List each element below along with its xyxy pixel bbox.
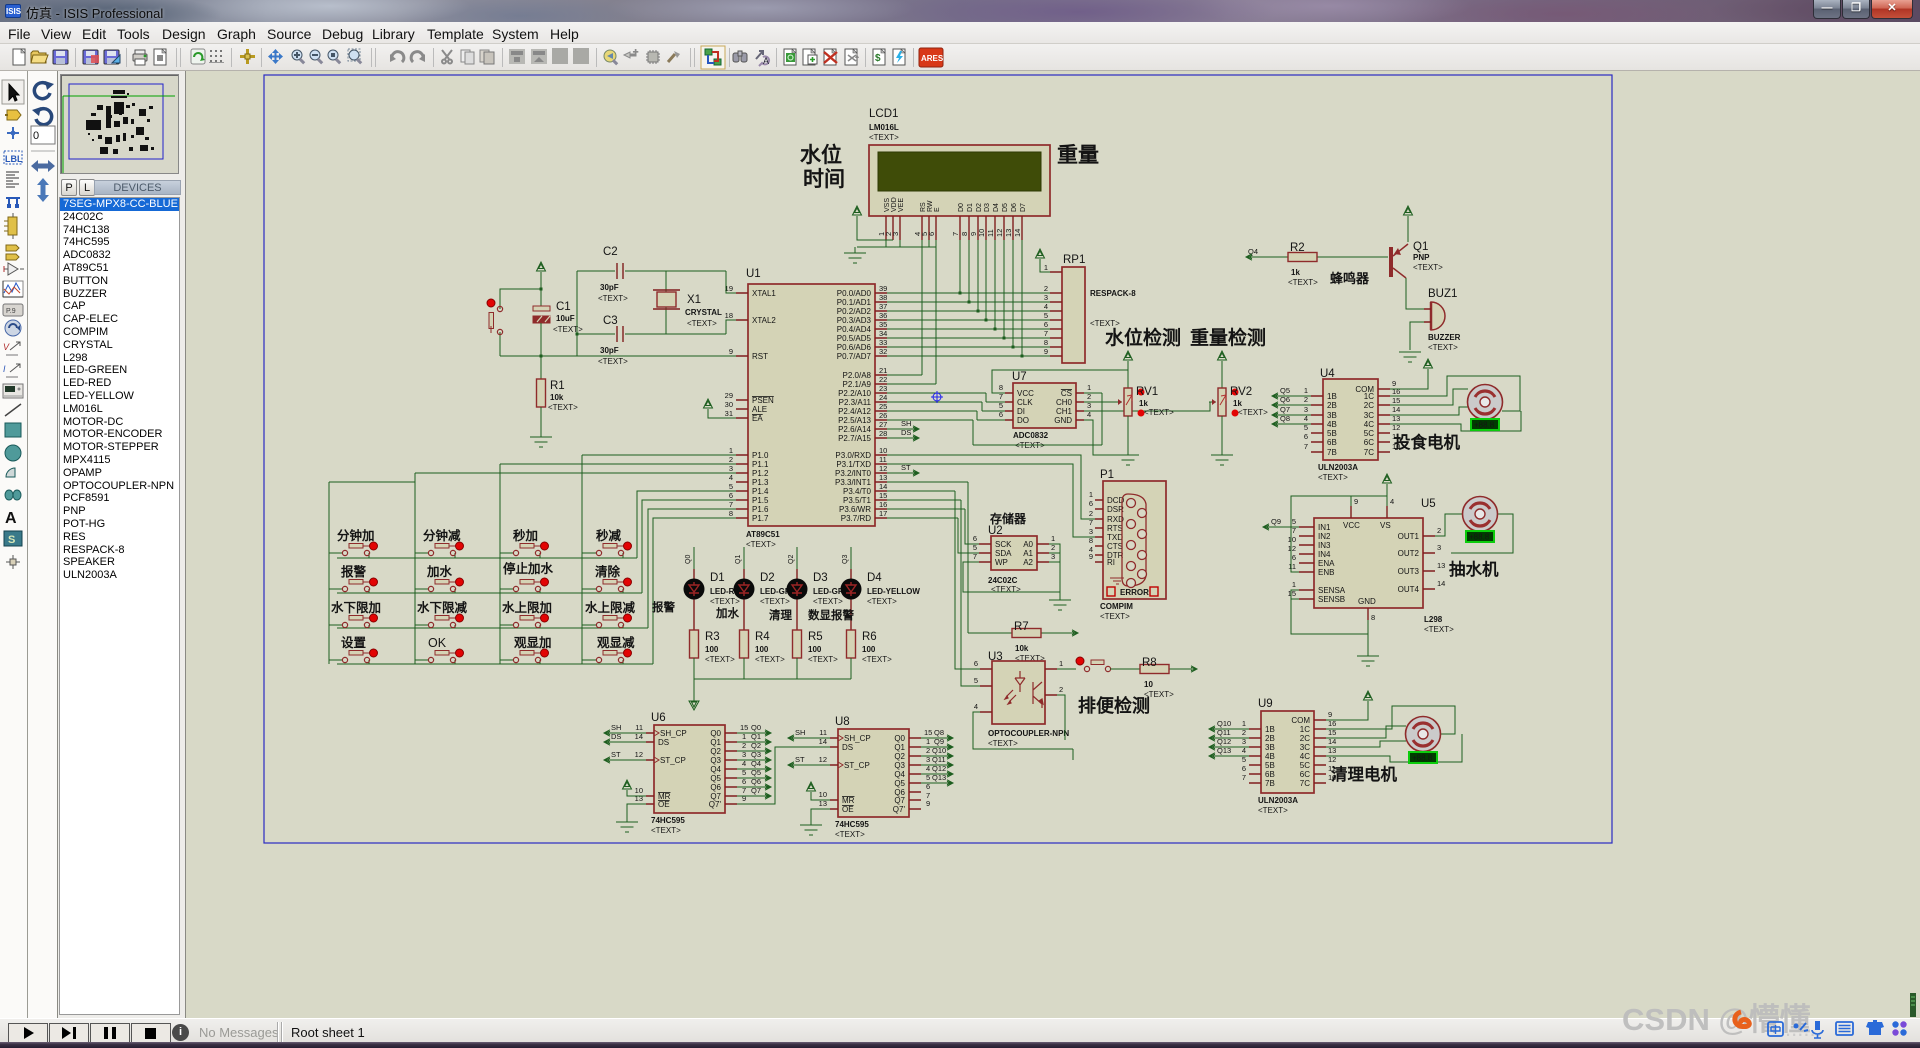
svg-text:SH_CP: SH_CP bbox=[844, 734, 871, 743]
svg-text:R4: R4 bbox=[755, 631, 770, 643]
svg-text:3C: 3C bbox=[1364, 411, 1374, 420]
svg-text:A: A bbox=[5, 510, 17, 527]
svg-text:分钟减: 分钟减 bbox=[423, 528, 461, 543]
svg-text:11: 11 bbox=[879, 455, 887, 464]
svg-text:7B: 7B bbox=[1265, 779, 1275, 788]
svg-text:14: 14 bbox=[879, 482, 887, 491]
svg-text:ENB: ENB bbox=[1318, 568, 1334, 577]
svg-text:Q6: Q6 bbox=[751, 777, 761, 786]
svg-text:$: $ bbox=[875, 53, 881, 64]
svg-text:A0: A0 bbox=[1023, 540, 1033, 549]
svg-text:Q12: Q12 bbox=[1217, 737, 1231, 746]
svg-text:4: 4 bbox=[974, 702, 978, 711]
svg-text:WP: WP bbox=[995, 558, 1008, 567]
svg-text:4B: 4B bbox=[1327, 420, 1337, 429]
svg-text:EA: EA bbox=[752, 414, 763, 423]
svg-text:14: 14 bbox=[1437, 579, 1445, 588]
svg-text:排便检测: 排便检测 bbox=[1078, 695, 1150, 716]
svg-text:RP1: RP1 bbox=[1063, 254, 1085, 266]
svg-text:Q3: Q3 bbox=[842, 555, 849, 564]
svg-text:<TEXT>: <TEXT> bbox=[1238, 408, 1268, 417]
svg-text:OUT4: OUT4 bbox=[1398, 585, 1420, 594]
svg-text:100: 100 bbox=[755, 645, 769, 654]
svg-text:12: 12 bbox=[1288, 544, 1296, 553]
svg-text:P3.0/RXD: P3.0/RXD bbox=[835, 451, 871, 460]
svg-text:6: 6 bbox=[927, 232, 936, 236]
svg-text:5: 5 bbox=[1044, 311, 1048, 320]
svg-text:P1: P1 bbox=[1100, 469, 1114, 481]
svg-text:OUT1: OUT1 bbox=[1398, 532, 1420, 541]
svg-text:15: 15 bbox=[879, 491, 887, 500]
svg-text:23: 23 bbox=[879, 384, 887, 393]
svg-text:A: A bbox=[763, 56, 769, 66]
svg-text:设置: 设置 bbox=[341, 635, 367, 650]
svg-text:CTS: CTS bbox=[1107, 542, 1123, 551]
svg-text:12: 12 bbox=[879, 464, 887, 473]
svg-text:D3: D3 bbox=[984, 203, 991, 212]
svg-text:1: 1 bbox=[1089, 490, 1093, 499]
svg-text:XTAL2: XTAL2 bbox=[752, 316, 776, 325]
svg-text:P1.6: P1.6 bbox=[752, 505, 769, 514]
svg-text:VEE: VEE bbox=[898, 198, 905, 212]
svg-text:SDA: SDA bbox=[995, 549, 1012, 558]
svg-text:9: 9 bbox=[1354, 497, 1358, 506]
svg-text:15: 15 bbox=[1392, 396, 1400, 405]
svg-text:D4: D4 bbox=[993, 203, 1000, 212]
svg-text:<TEXT>: <TEXT> bbox=[991, 585, 1021, 594]
svg-text:0: 0 bbox=[33, 130, 39, 142]
svg-text:35: 35 bbox=[879, 320, 887, 329]
svg-text:9: 9 bbox=[1089, 552, 1093, 561]
svg-text:9: 9 bbox=[1044, 347, 1048, 356]
svg-text:<TEXT>: <TEXT> bbox=[1318, 473, 1348, 482]
svg-text:U1: U1 bbox=[746, 268, 761, 280]
svg-text:P1.5: P1.5 bbox=[752, 496, 769, 505]
svg-text:32: 32 bbox=[879, 347, 887, 356]
svg-text:TXD: TXD bbox=[1107, 533, 1123, 542]
svg-text:Q8: Q8 bbox=[934, 728, 944, 737]
svg-text:3: 3 bbox=[891, 232, 900, 236]
svg-text:2C: 2C bbox=[1364, 401, 1374, 410]
svg-text:LED-YELLOW: LED-YELLOW bbox=[867, 587, 920, 596]
svg-text:P0.3/AD3: P0.3/AD3 bbox=[837, 316, 872, 325]
svg-text:DS: DS bbox=[611, 732, 621, 741]
svg-text:<TEXT>: <TEXT> bbox=[1413, 263, 1443, 272]
svg-text:秒减: 秒减 bbox=[596, 528, 622, 543]
svg-text:<TEXT>: <TEXT> bbox=[687, 319, 717, 328]
svg-text:Q7: Q7 bbox=[751, 786, 761, 795]
svg-text:13: 13 bbox=[879, 473, 887, 482]
svg-text:Q1: Q1 bbox=[751, 732, 761, 741]
svg-text:Q2: Q2 bbox=[751, 741, 761, 750]
svg-text:ULN2003A: ULN2003A bbox=[1258, 796, 1298, 805]
svg-text:P0.0/AD0: P0.0/AD0 bbox=[837, 289, 872, 298]
svg-text:蜂鸣器: 蜂鸣器 bbox=[1330, 271, 1370, 286]
svg-text:1: 1 bbox=[1051, 534, 1055, 543]
svg-text:<TEXT>: <TEXT> bbox=[988, 739, 1018, 748]
svg-text:6: 6 bbox=[1292, 553, 1296, 562]
svg-text:6C: 6C bbox=[1364, 438, 1374, 447]
svg-text:COM: COM bbox=[1291, 716, 1310, 725]
svg-text:清理电机: 清理电机 bbox=[1331, 764, 1398, 784]
svg-text:Q3: Q3 bbox=[710, 756, 721, 765]
svg-text:Q1: Q1 bbox=[894, 743, 905, 752]
svg-text:16: 16 bbox=[1392, 387, 1400, 396]
svg-text:LM016L: LM016L bbox=[869, 123, 899, 132]
svg-text:100: 100 bbox=[808, 645, 822, 654]
svg-text:E: E bbox=[934, 207, 941, 212]
svg-text:RW: RW bbox=[927, 200, 934, 212]
svg-text:1C: 1C bbox=[1300, 725, 1310, 734]
svg-text:Q11: Q11 bbox=[1217, 728, 1231, 737]
svg-text:U6: U6 bbox=[651, 712, 666, 724]
svg-text:P1.2: P1.2 bbox=[752, 469, 769, 478]
svg-text:RS: RS bbox=[920, 202, 927, 212]
svg-text:2C: 2C bbox=[1300, 734, 1310, 743]
svg-text:C3: C3 bbox=[603, 315, 618, 327]
svg-text:重量检测: 重量检测 bbox=[1190, 326, 1266, 349]
svg-text:D2: D2 bbox=[760, 572, 775, 584]
svg-text:Q5: Q5 bbox=[710, 774, 721, 783]
svg-text:9: 9 bbox=[926, 799, 930, 808]
svg-text:1C: 1C bbox=[1364, 392, 1374, 401]
svg-text:4B: 4B bbox=[1265, 752, 1275, 761]
svg-text:DO: DO bbox=[1017, 416, 1029, 425]
svg-text:R6: R6 bbox=[862, 631, 877, 643]
svg-text:<TEXT>: <TEXT> bbox=[1428, 343, 1458, 352]
svg-text:OK: OK bbox=[428, 636, 447, 650]
svg-text:Q0: Q0 bbox=[685, 555, 692, 564]
svg-text:U9: U9 bbox=[1258, 698, 1273, 710]
svg-text:13: 13 bbox=[1437, 561, 1445, 570]
svg-text:<TEXT>: <TEXT> bbox=[710, 597, 740, 606]
svg-text:加水: 加水 bbox=[715, 606, 739, 620]
svg-text:Q2: Q2 bbox=[894, 752, 905, 761]
svg-text:ST_CP: ST_CP bbox=[844, 761, 870, 770]
svg-text:27: 27 bbox=[879, 420, 887, 429]
svg-text:RV1: RV1 bbox=[1136, 386, 1158, 398]
svg-text:SENSB: SENSB bbox=[1318, 595, 1345, 604]
svg-text:11: 11 bbox=[635, 723, 643, 732]
svg-text:<TEXT>: <TEXT> bbox=[651, 826, 681, 835]
svg-text:29: 29 bbox=[725, 391, 733, 400]
svg-text:秒加: 秒加 bbox=[513, 528, 538, 543]
svg-text:P2.5/A13: P2.5/A13 bbox=[838, 416, 871, 425]
svg-text:7: 7 bbox=[951, 232, 960, 236]
svg-text:1: 1 bbox=[1087, 383, 1091, 392]
svg-text:25: 25 bbox=[879, 402, 887, 411]
svg-text:5: 5 bbox=[974, 676, 978, 685]
svg-text:8: 8 bbox=[999, 383, 1003, 392]
svg-text:GND: GND bbox=[1054, 416, 1072, 425]
svg-text:SH: SH bbox=[611, 723, 621, 732]
svg-text:Q4: Q4 bbox=[751, 759, 761, 768]
svg-text:P2.6/A14: P2.6/A14 bbox=[838, 425, 871, 434]
svg-text:<TEXT>: <TEXT> bbox=[813, 597, 843, 606]
svg-text:<TEXT>: <TEXT> bbox=[1090, 319, 1120, 328]
svg-text:D6: D6 bbox=[1011, 203, 1018, 212]
svg-text:R5: R5 bbox=[808, 631, 823, 643]
svg-text:5C: 5C bbox=[1300, 761, 1310, 770]
svg-text:16: 16 bbox=[879, 500, 887, 509]
svg-text:时间: 时间 bbox=[803, 168, 845, 191]
svg-text:P0.2/AD2: P0.2/AD2 bbox=[837, 307, 872, 316]
svg-text:P3.1/TXD: P3.1/TXD bbox=[836, 460, 871, 469]
svg-text:9: 9 bbox=[729, 347, 733, 356]
svg-text:10uF: 10uF bbox=[556, 314, 575, 323]
svg-text:OE: OE bbox=[842, 805, 854, 814]
svg-text:CRYSTAL: CRYSTAL bbox=[685, 308, 722, 317]
svg-text:C2: C2 bbox=[603, 246, 618, 258]
svg-text:P3.5/T1: P3.5/T1 bbox=[843, 496, 872, 505]
svg-text:7C: 7C bbox=[1364, 448, 1374, 457]
svg-text:3: 3 bbox=[1089, 527, 1093, 536]
svg-text:3: 3 bbox=[729, 464, 733, 473]
svg-text:<TEXT>: <TEXT> bbox=[862, 655, 892, 664]
svg-text:13: 13 bbox=[635, 794, 643, 803]
svg-text:8: 8 bbox=[1371, 613, 1375, 622]
svg-text:10: 10 bbox=[977, 229, 986, 237]
svg-text:P2.0/A8: P2.0/A8 bbox=[843, 371, 872, 380]
svg-text:P2.1/A9: P2.1/A9 bbox=[843, 380, 872, 389]
svg-text:COMPIM: COMPIM bbox=[1100, 602, 1133, 611]
svg-text:IN4: IN4 bbox=[1318, 550, 1331, 559]
svg-text:+: + bbox=[633, 47, 638, 57]
svg-text:P1.3: P1.3 bbox=[752, 478, 769, 487]
svg-text:15: 15 bbox=[924, 728, 932, 737]
svg-text:SENSA: SENSA bbox=[1318, 586, 1346, 595]
svg-text:P2.3/A11: P2.3/A11 bbox=[839, 398, 872, 407]
svg-text:I: I bbox=[3, 364, 6, 374]
svg-text:P3.3/INT1: P3.3/INT1 bbox=[835, 478, 872, 487]
svg-text:Q7: Q7 bbox=[1280, 405, 1290, 414]
svg-text:12: 12 bbox=[635, 750, 643, 759]
svg-text:6B: 6B bbox=[1327, 438, 1337, 447]
svg-text:A1: A1 bbox=[1023, 549, 1033, 558]
svg-text:<TEXT>: <TEXT> bbox=[598, 294, 628, 303]
svg-text:24: 24 bbox=[879, 393, 887, 402]
svg-text:1k: 1k bbox=[1233, 399, 1242, 408]
svg-text:U7: U7 bbox=[1012, 371, 1027, 383]
svg-text:VCC: VCC bbox=[1343, 521, 1360, 530]
svg-text:<TEXT>: <TEXT> bbox=[548, 403, 578, 412]
svg-text:D5: D5 bbox=[1002, 203, 1009, 212]
svg-text:P0.6/AD6: P0.6/AD6 bbox=[837, 343, 872, 352]
svg-text:Q13: Q13 bbox=[1217, 746, 1231, 755]
svg-text:ST: ST bbox=[795, 755, 805, 764]
svg-text:3: 3 bbox=[1044, 293, 1048, 302]
svg-text:4: 4 bbox=[1390, 497, 1394, 506]
svg-text:<TEXT>: <TEXT> bbox=[1288, 278, 1318, 287]
svg-text:Q7': Q7' bbox=[893, 805, 906, 814]
svg-text:Q2: Q2 bbox=[710, 747, 721, 756]
svg-text:AT89C51: AT89C51 bbox=[746, 530, 780, 539]
svg-text:VSS: VSS bbox=[884, 198, 891, 212]
svg-text:37: 37 bbox=[879, 302, 887, 311]
svg-text:D1: D1 bbox=[967, 203, 974, 212]
svg-text:Q6: Q6 bbox=[710, 783, 721, 792]
svg-text:1: 1 bbox=[1059, 659, 1063, 668]
svg-text:7: 7 bbox=[1304, 442, 1308, 451]
svg-text:P2.4/A12: P2.4/A12 bbox=[838, 407, 871, 416]
svg-text:ARES: ARES bbox=[921, 54, 944, 63]
svg-text:3B: 3B bbox=[1265, 743, 1275, 752]
svg-text:Q4: Q4 bbox=[894, 770, 905, 779]
svg-text:观显加: 观显加 bbox=[514, 635, 552, 650]
svg-text:水下限减: 水下限减 bbox=[417, 600, 468, 615]
svg-text:R3: R3 bbox=[705, 631, 720, 643]
svg-text:8: 8 bbox=[960, 232, 969, 236]
svg-text:Q5: Q5 bbox=[894, 779, 905, 788]
svg-text:<TEXT>: <TEXT> bbox=[1258, 806, 1288, 815]
svg-text:2B: 2B bbox=[1327, 401, 1337, 410]
svg-text:RTS: RTS bbox=[1107, 524, 1123, 533]
svg-text:Q0: Q0 bbox=[894, 734, 905, 743]
svg-text:ST: ST bbox=[611, 750, 621, 759]
svg-text:水位: 水位 bbox=[800, 143, 842, 167]
svg-text:报警: 报警 bbox=[652, 600, 675, 614]
svg-text:数显报警: 数显报警 bbox=[808, 608, 854, 622]
svg-text:Q2: Q2 bbox=[788, 555, 795, 564]
svg-text:Q1: Q1 bbox=[1413, 241, 1428, 253]
svg-text:RV2: RV2 bbox=[1230, 386, 1252, 398]
svg-text:5: 5 bbox=[999, 401, 1003, 410]
svg-text:31: 31 bbox=[725, 409, 733, 418]
svg-text:30pF: 30pF bbox=[600, 283, 619, 292]
svg-text:1: 1 bbox=[1304, 386, 1308, 395]
svg-text:13: 13 bbox=[1004, 229, 1013, 237]
svg-text:P0.5/AD5: P0.5/AD5 bbox=[837, 334, 872, 343]
svg-text:4: 4 bbox=[729, 473, 733, 482]
svg-text:34: 34 bbox=[879, 329, 887, 338]
svg-text:7B: 7B bbox=[1327, 448, 1337, 457]
svg-text:<TEXT>: <TEXT> bbox=[705, 655, 735, 664]
svg-text:OPTOCOUPLER-NPN: OPTOCOUPLER-NPN bbox=[988, 729, 1069, 738]
svg-text:1B: 1B bbox=[1327, 392, 1337, 401]
svg-text:Q9: Q9 bbox=[1271, 517, 1281, 526]
svg-text:15: 15 bbox=[740, 723, 748, 732]
svg-text:LBL: LBL bbox=[5, 154, 23, 164]
svg-text:Q5: Q5 bbox=[751, 768, 761, 777]
svg-text:1: 1 bbox=[1242, 719, 1246, 728]
svg-text:Q13: Q13 bbox=[932, 773, 946, 782]
svg-text:10: 10 bbox=[879, 446, 887, 455]
svg-text:Q5: Q5 bbox=[1280, 386, 1290, 395]
svg-text:3C: 3C bbox=[1300, 743, 1310, 752]
svg-text:Q8: Q8 bbox=[1280, 414, 1290, 423]
svg-text:VDD: VDD bbox=[891, 197, 898, 212]
svg-text:18: 18 bbox=[725, 311, 733, 320]
svg-text:D7: D7 bbox=[1020, 203, 1027, 212]
svg-text:Q12: Q12 bbox=[932, 764, 946, 773]
svg-text:CH0: CH0 bbox=[1056, 398, 1073, 407]
svg-text:3B: 3B bbox=[1327, 411, 1337, 420]
svg-text:BUZ1: BUZ1 bbox=[1428, 288, 1457, 300]
svg-text:2: 2 bbox=[729, 455, 733, 464]
svg-text:ST_CP: ST_CP bbox=[660, 756, 686, 765]
svg-text:<TEXT>: <TEXT> bbox=[867, 597, 897, 606]
svg-text:DI: DI bbox=[1017, 407, 1025, 416]
svg-text:SH_CP: SH_CP bbox=[660, 729, 687, 738]
svg-text:水上限加: 水上限加 bbox=[502, 600, 552, 615]
svg-text:12: 12 bbox=[819, 755, 827, 764]
svg-text:5: 5 bbox=[1292, 517, 1296, 526]
svg-text:DS: DS bbox=[901, 428, 911, 437]
svg-text:Q11: Q11 bbox=[932, 755, 946, 764]
svg-text:GND: GND bbox=[1358, 597, 1376, 606]
svg-text:74HC595: 74HC595 bbox=[651, 816, 685, 825]
svg-text:5C: 5C bbox=[1364, 429, 1374, 438]
svg-text:4C: 4C bbox=[1300, 752, 1310, 761]
svg-text:4: 4 bbox=[1044, 302, 1048, 311]
svg-text:10: 10 bbox=[1144, 680, 1153, 689]
svg-text:Q3: Q3 bbox=[894, 761, 905, 770]
svg-text:6: 6 bbox=[973, 534, 977, 543]
svg-text:CS: CS bbox=[1061, 389, 1072, 398]
svg-text:U5: U5 bbox=[1421, 498, 1436, 510]
svg-text:Q10: Q10 bbox=[1217, 719, 1231, 728]
svg-text:3: 3 bbox=[1304, 405, 1308, 414]
svg-text:P1.4: P1.4 bbox=[752, 487, 769, 496]
svg-text:9: 9 bbox=[1328, 710, 1332, 719]
svg-text:8: 8 bbox=[729, 509, 733, 518]
svg-text:6: 6 bbox=[1304, 432, 1308, 441]
svg-text:BUZZER: BUZZER bbox=[1428, 333, 1461, 342]
svg-text:R1: R1 bbox=[550, 380, 565, 392]
svg-text:7C: 7C bbox=[1300, 779, 1310, 788]
svg-text:22: 22 bbox=[879, 375, 887, 384]
svg-text:加水: 加水 bbox=[426, 564, 453, 579]
svg-text:6C: 6C bbox=[1300, 770, 1310, 779]
svg-text:存储器: 存储器 bbox=[989, 511, 1027, 526]
svg-text:9: 9 bbox=[742, 794, 746, 803]
svg-text:P0.7/AD7: P0.7/AD7 bbox=[837, 352, 872, 361]
svg-text:P0.4/AD4: P0.4/AD4 bbox=[837, 325, 872, 334]
svg-text:R8: R8 bbox=[1142, 657, 1157, 669]
svg-text:<TEXT>: <TEXT> bbox=[553, 325, 583, 334]
svg-text:<TEXT>: <TEXT> bbox=[760, 597, 790, 606]
svg-text:ALE: ALE bbox=[752, 405, 767, 414]
svg-text:28: 28 bbox=[879, 429, 887, 438]
svg-text:PNP: PNP bbox=[1413, 253, 1430, 262]
svg-text:21: 21 bbox=[879, 366, 887, 375]
svg-text:D2: D2 bbox=[976, 203, 983, 212]
svg-text:36: 36 bbox=[879, 311, 887, 320]
svg-text:2: 2 bbox=[1044, 284, 1048, 293]
svg-text:Q3: Q3 bbox=[751, 750, 761, 759]
svg-text:Q6: Q6 bbox=[1280, 395, 1290, 404]
svg-text:30pF: 30pF bbox=[600, 346, 619, 355]
svg-text:P3.2/INT0: P3.2/INT0 bbox=[835, 469, 872, 478]
svg-text:清除: 清除 bbox=[595, 564, 621, 579]
svg-text:DS: DS bbox=[842, 743, 853, 752]
svg-text:P1.7: P1.7 bbox=[752, 514, 769, 523]
svg-text:Q1: Q1 bbox=[735, 555, 742, 564]
svg-text:7: 7 bbox=[1044, 329, 1048, 338]
svg-text:1k: 1k bbox=[1139, 399, 1148, 408]
svg-text:30: 30 bbox=[725, 400, 733, 409]
svg-text:P2.2/A10: P2.2/A10 bbox=[838, 389, 871, 398]
svg-text:2: 2 bbox=[1059, 685, 1063, 694]
svg-text:100: 100 bbox=[862, 645, 876, 654]
svg-text:6: 6 bbox=[1089, 499, 1093, 508]
svg-text:33: 33 bbox=[879, 338, 887, 347]
svg-text:10: 10 bbox=[819, 790, 827, 799]
svg-text:10k: 10k bbox=[1015, 644, 1029, 653]
svg-text:P3.7/RD: P3.7/RD bbox=[841, 514, 871, 523]
svg-text:7: 7 bbox=[1242, 773, 1246, 782]
svg-text:OE: OE bbox=[658, 800, 670, 809]
